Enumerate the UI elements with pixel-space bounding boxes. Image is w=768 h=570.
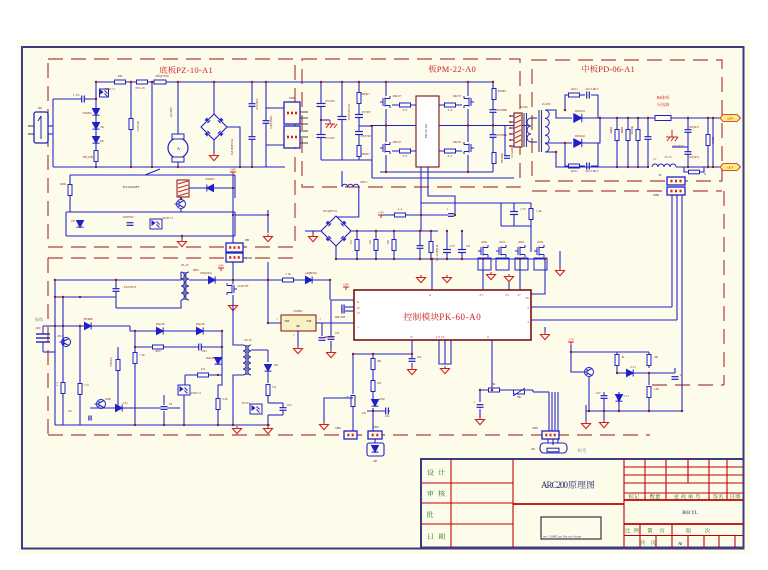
potentiometer 10K 标定 (540, 443, 567, 453)
junction dots PD (599, 117, 601, 119)
resistor 10W5K7 (492, 89, 496, 100)
snubber bottom capacitor (580, 165, 585, 167)
wire sensor c (681, 195, 683, 392)
transformer EL-25 (181, 272, 185, 300)
snubber bottom resistor 1R22 (565, 143, 568, 166)
wire PK35 bottom out a (420, 167, 422, 215)
svg-text:C0N0: C0N0 (246, 256, 253, 260)
svg-text:222/1.6KV: 222/1.6KV (585, 87, 599, 91)
svg-text:VINT: VINT (284, 320, 290, 323)
wire filter tap (359, 125, 372, 127)
resistor 10PK017 bottom (357, 146, 361, 157)
svg-text:470: 470 (201, 368, 206, 371)
svg-text:2(B)47N30: 2(B)47N30 (155, 74, 169, 78)
capacitor .09 (161, 407, 168, 410)
svg-text:540: 540 (369, 239, 372, 244)
svg-text:10W5K7: 10W5K7 (498, 89, 507, 93)
wire mid vert 222 (221, 331, 223, 375)
ground loop (320, 422, 329, 430)
wire 15V feed (381, 214, 455, 216)
resistor gate 0.8 lower (392, 150, 416, 152)
dashed box 板 PM-22-A0 (302, 59, 520, 187)
title block frame (421, 459, 744, 548)
power -28V flag (218, 268, 224, 271)
svg-text:468L/NW: 468L/NW (324, 336, 334, 339)
svg-text:ELL/90A/OFF: ELL/90A/OFF (123, 185, 140, 189)
svg-text:7.10: 7.10 (83, 384, 89, 387)
wire pin6 down (491, 340, 493, 390)
resistor gate 9.6 (439, 104, 462, 106)
resistor 2B47N30 (154, 80, 166, 84)
svg-text:222/1.6KV: 222/1.6KV (585, 169, 599, 173)
svg-text:ARC200: ARC200 (541, 480, 569, 490)
svg-text:10K: 10K (531, 448, 535, 451)
ground module top b (443, 275, 452, 283)
svg-text:IN14(B5U): IN14(B5U) (323, 209, 337, 213)
mosfet bank Q8 2Z24 (534, 245, 544, 257)
svg-text:9K: 9K (493, 383, 496, 386)
capacitor snubber (504, 126, 506, 158)
capacitor .062 led (372, 408, 374, 411)
power -15V flag (568, 342, 574, 345)
wire D2 out (581, 118, 600, 143)
capacitor .1 pin6 (479, 390, 481, 402)
diode IN4002 (189, 187, 235, 189)
resistor gate 0.8 (392, 104, 416, 106)
wire module right pin2 (531, 306, 672, 308)
svg-text:15-15: 15-15 (664, 155, 672, 159)
svg-text:9Z04: 9Z04 (481, 240, 487, 244)
optocoupler PC817-1 (100, 89, 109, 97)
resistor 100 (371, 381, 375, 392)
wire column 152 (151, 82, 153, 167)
wire aux bottom rail (55, 424, 270, 426)
svg-text:10PK017: 10PK017 (360, 93, 370, 96)
resistor 9K (489, 388, 500, 392)
svg-text:9.2K: 9.2K (222, 398, 228, 401)
module pin numbers (428, 293, 432, 297)
connector X2 current sensor (667, 177, 685, 185)
wire aux dc rail top (351, 230, 438, 232)
mosfet aux 4148 (227, 283, 237, 295)
capacitor 474-250V a (249, 104, 256, 107)
ground module left (330, 341, 332, 350)
svg-text:-28V: -28V (218, 264, 225, 268)
resistor 9.2K (216, 399, 220, 410)
wire LM7812 out (316, 322, 354, 324)
svg-text:+15V: +15V (378, 211, 385, 215)
svg-text:TVR-431: TVR-431 (136, 120, 140, 131)
capacitor filter a (446, 231, 448, 259)
ground T3 (264, 426, 273, 434)
svg-text:104: 104 (335, 332, 340, 335)
wire DC+ rail (600, 117, 725, 119)
resistor 1.0R drive (530, 203, 532, 252)
wire module top pin 23 (482, 259, 484, 290)
svg-text:2 9 16: 2 9 16 (436, 335, 445, 339)
transformer T1 output winding (545, 110, 549, 152)
svg-text:6.23: 6.23 (630, 366, 636, 369)
scale page row (626, 528, 639, 533)
diode 4148 cluster (616, 368, 618, 373)
mosfet bank Q5 9Z04 (478, 245, 488, 257)
capacitor 4.7uF drive (513, 203, 515, 226)
wire aux left vert 63 (62, 297, 64, 352)
wire con1 feed (372, 411, 374, 431)
mosfet Q2 2SK727 (464, 96, 474, 108)
varistor 2KB21 b (627, 118, 629, 167)
capacitor 0.1 (448, 214, 454, 217)
svg-text:C0N6: C0N6 (653, 193, 660, 197)
svg-text:2007: 2007 (155, 350, 161, 353)
resistor RT2 (115, 80, 126, 84)
svg-text:B016: B016 (193, 269, 199, 272)
svg-text:26: 26 (525, 296, 529, 300)
svg-text:DPG0.62: DPG0.62 (575, 134, 586, 138)
svg-text:471CBB3: 471CBB3 (497, 108, 508, 112)
svg-text:PZ-10-A1: PZ-10-A1 (176, 65, 213, 75)
resistor 2007 (153, 345, 164, 349)
dashed box 底板 PZ-10-A1 (48, 59, 295, 247)
svg-text:LM7812: LM7812 (294, 309, 304, 313)
svg-text:471/1KV: 471/1KV (325, 137, 335, 140)
junction dots mid (335, 258, 337, 260)
junction dots PM (385, 81, 387, 83)
connector CON8 lower (284, 126, 300, 148)
svg-text:103(1KV): 103(1KV) (689, 126, 700, 129)
diode IN4148 down (215, 358, 222, 365)
svg-text:EE-16: EE-16 (245, 339, 253, 342)
svg-text:100: 100 (377, 382, 382, 385)
wire B2 bottom (335, 246, 337, 259)
transistor drive (583, 368, 594, 377)
svg-text:LED1: LED1 (379, 398, 385, 401)
wire AC top rail (96, 81, 493, 83)
optocoupler PCB17-2 (178, 385, 190, 395)
wire PM bottom rail b (372, 177, 514, 179)
ground relay (181, 236, 183, 239)
resistor 79K pot (514, 390, 525, 394)
wire net 222-375 to 218 (218, 375, 222, 399)
wire 4148 row (130, 326, 222, 331)
transformer T1 pins (509, 116, 514, 146)
wire aux 24V rail (233, 279, 330, 281)
svg-text:23: 23 (479, 293, 483, 297)
svg-text:9W3.6K: 9W3.6K (631, 126, 634, 134)
wire net 185 down (183, 395, 185, 425)
wire PM filter column (358, 82, 360, 160)
wire pin6 net (480, 389, 533, 391)
wire sensor a (671, 195, 673, 307)
earth ground PM (321, 119, 330, 121)
wire inlet N (28, 133, 34, 135)
wire net right (532, 390, 534, 392)
wire pin15 down (411, 340, 413, 362)
wire reg feed down (329, 280, 331, 300)
resistor 2.2 left (62, 352, 64, 425)
transformer T1 secondary (527, 118, 531, 142)
svg-text:474/250V: 474/250V (255, 97, 259, 110)
wire drive rail 203 (421, 202, 531, 204)
svg-text:OUT-: OUT- (727, 166, 734, 170)
resistor 470 (185, 374, 222, 376)
wire net 135 down (134, 364, 136, 425)
svg-text:2KB21: 2KB21 (621, 126, 624, 134)
wire cluster top (570, 345, 572, 368)
svg-text:C0N2: C0N2 (335, 427, 341, 430)
svg-text:47UF/50V: 47UF/50V (361, 135, 372, 138)
svg-text:N4: N4 (101, 125, 105, 129)
wire cap feed (53, 98, 75, 100)
svg-text:-15V: -15V (568, 338, 575, 342)
svg-text:AD-12-IP41-B: AD-12-IP41-B (436, 244, 439, 261)
svg-text:1.4K: 1.4K (536, 210, 541, 213)
inductor N06-1 (341, 171, 343, 187)
wire inductor to bridge (336, 187, 359, 217)
dashed boundary line below PD board (532, 190, 722, 192)
transformer T1 core (524, 113, 527, 147)
wire 1.4K down (648, 398, 650, 411)
svg-text:1.05: 1.05 (73, 93, 80, 97)
transformer T3 drive (243, 345, 246, 375)
ground pin15 (411, 363, 413, 367)
ground mosfet b (559, 251, 561, 268)
varistor 2KB21 a (616, 118, 618, 167)
label 标定 (578, 448, 587, 452)
wire AC bottom rail (53, 166, 285, 168)
wire aux input a (43, 325, 55, 327)
title row labels (427, 469, 445, 475)
svg-text:4.15: 4.15 (623, 395, 629, 398)
svg-text:X2: X2 (659, 173, 663, 177)
wire module top pin 27 (519, 259, 521, 290)
svg-text:9.6: 9.6 (448, 154, 453, 158)
wire cap column 252 (251, 82, 253, 167)
zener 14V (267, 350, 269, 362)
wire PK35 to rail join (420, 215, 422, 231)
svg-text:2SK727: 2SK727 (393, 94, 402, 98)
svg-text:PTC-18: PTC-18 (136, 86, 146, 90)
svg-text:2N11: 2N11 (57, 335, 63, 338)
svg-text:PD-06-A1: PD-06-A1 (598, 64, 635, 74)
module 控制模块 PK-60-A0 (354, 290, 531, 340)
svg-text:2Z24: 2Z24 (537, 240, 543, 244)
resistor PTC-18 (137, 80, 148, 84)
svg-text:PK-60-A0: PK-60-A0 (439, 312, 481, 322)
resistor 7.10 (79, 326, 81, 425)
svg-text:1.4K: 1.4K (653, 388, 659, 391)
svg-text:PC817-1: PC817-1 (163, 216, 174, 220)
bridge rectifier B2 IN5408 (321, 216, 351, 246)
resistor 10 (351, 396, 355, 407)
resistor 10PK017 top (357, 93, 361, 104)
svg-text:435/630/W: 435/630/W (124, 286, 137, 289)
capacitor pin13 (345, 310, 354, 312)
wire PM left cap column (320, 82, 322, 160)
svg-text:PH(4004): PH(4004) (200, 272, 211, 275)
svg-text:CX(CB)/0V: CX(CB)/0V (269, 115, 273, 129)
diode HY3048 (55, 325, 130, 327)
wire relay lower loop (66, 211, 235, 213)
dashed box bottom region (47, 258, 49, 435)
capacitor 103 1KV b (685, 152, 692, 155)
wire res row (134, 331, 136, 347)
svg-text:14V: 14V (274, 364, 278, 367)
diode PH14047 (189, 279, 233, 281)
diode D1 DPG60 (574, 114, 582, 122)
chassis ground (666, 130, 678, 141)
capacitor 471 1KV a (317, 104, 326, 107)
wire relay loop (70, 174, 235, 176)
wire bridge out (227, 127, 240, 167)
diode IN4148 a (157, 328, 164, 335)
wire PM right vert (492, 82, 494, 172)
capacitor .062 (199, 344, 202, 351)
connector X01 AC inlet (34, 112, 48, 143)
wire DC- rail (545, 152, 648, 167)
svg-text:EI34b: EI34b (520, 105, 528, 109)
wire output right vert (712, 118, 714, 167)
svg-text:JL: JL (704, 173, 707, 176)
resistor bleeder (707, 118, 709, 167)
transistor Q relay (175, 200, 186, 209)
ground cluster b (585, 411, 587, 421)
capacitor 47UF50V (355, 132, 363, 135)
ground cluster a (603, 411, 605, 420)
wire pins 2 9 16 (439, 340, 451, 364)
wire xfmr top feed (177, 272, 181, 280)
ground B2 (312, 231, 314, 234)
inductor L7 (652, 164, 676, 167)
junction dots box1 (95, 81, 97, 83)
wire aux rail 280 (55, 279, 177, 281)
wire k row (90, 407, 180, 409)
capacitor 104 (409, 359, 416, 362)
svg-text:RT2: RT2 (118, 74, 123, 78)
svg-text:C0N3: C0N3 (532, 427, 538, 430)
svg-text:9Z04: 9Z04 (518, 240, 524, 244)
svg-text:2SK727: 2SK727 (453, 94, 462, 98)
svg-text:1.0UF50V: 1.0UF50V (122, 215, 135, 219)
wire aux left rail 297 (55, 296, 116, 298)
wire cluster bottom (588, 392, 590, 411)
mosfet Q4 2SK727 (464, 142, 474, 154)
wire earth tie (672, 146, 688, 148)
diode IN4148 b (197, 328, 204, 335)
wire pot feed (352, 407, 354, 431)
resistor FR108 (94, 151, 98, 162)
svg-text:1R/22: 1R/22 (570, 169, 578, 173)
wire PK35 bottom out b (428, 167, 455, 215)
connector pot CON3 (542, 431, 559, 439)
svg-text:13: 13 (356, 311, 360, 315)
svg-text:47V/50V: 47V/50V (361, 111, 370, 114)
connector aux input (36, 334, 50, 342)
resistor 471CBB lower (492, 153, 496, 164)
capacitor 103 1KV (687, 118, 689, 167)
svg-text:0.8: 0.8 (403, 108, 408, 112)
svg-text:10PK017: 10PK017 (360, 153, 370, 156)
svg-text:IN4148: IN4148 (206, 357, 215, 360)
resistor 501 (430, 231, 432, 259)
wire to aux right (235, 214, 268, 216)
svg-text:L7: L7 (654, 157, 658, 161)
resistor 79K (372, 354, 374, 399)
capacitor aux (419, 231, 421, 259)
svg-text:2.2: 2.2 (56, 381, 59, 386)
wire module top pin 25 (508, 281, 510, 290)
svg-text:IN4148: IN4148 (156, 322, 165, 326)
torch connector (374, 439, 376, 443)
diode N4 (93, 123, 100, 130)
svg-text:hw: 518B7.pp file not found: hw: 518B7.pp file not found (543, 535, 582, 539)
capacitor 468L NW (321, 323, 323, 336)
svg-text:4.25: 4.25 (122, 402, 128, 405)
svg-text:+24V: +24V (230, 168, 237, 172)
resistor 27KX2 (117, 347, 119, 408)
ground pin6 (479, 409, 481, 417)
zener 15V (77, 221, 84, 228)
regulator LM7812 (281, 315, 316, 331)
svg-text:7.1K: 7.1K (139, 354, 145, 357)
svg-text:EL-25: EL-25 (181, 263, 189, 267)
module PK-35-A0 (416, 96, 439, 167)
mosfet Q1 2SK727 (380, 96, 390, 108)
dashed right margin boundary (723, 191, 725, 385)
capacitor 474-250V b (249, 137, 256, 140)
wire opto feed (184, 375, 186, 385)
svg-text:110V: 110V (35, 327, 41, 330)
ground LM7812 (297, 331, 299, 346)
svg-text:VOUT: VOUT (306, 320, 312, 323)
svg-text:C0N1: C0N1 (373, 426, 379, 429)
capacitor 1.05 (75, 98, 96, 100)
resistor 9W36 (637, 118, 639, 167)
ground aux bottom (233, 426, 242, 434)
wire cap column 266 (265, 82, 267, 167)
svg-text:79K: 79K (517, 396, 521, 399)
resistor 1K (616, 352, 618, 368)
dashed box 中板 PD-06-A1 (532, 60, 722, 181)
capacitor 47V50KV (355, 115, 363, 118)
svg-text:4.7F: 4.7F (449, 245, 455, 248)
resistor 180 (393, 231, 395, 259)
svg-text:7.1K: 7.1K (285, 272, 292, 276)
bridge rectifier B1 (213, 82, 215, 114)
resistor 2.2 (395, 213, 406, 217)
svg-text:PK.35.A0: PK.35.A0 (424, 124, 428, 138)
mosfet bank Q7 9Z04 (515, 245, 525, 257)
svg-text:2SK727: 2SK727 (393, 140, 402, 144)
wire EMI column (130, 82, 132, 167)
wire T3 left (233, 303, 243, 345)
svg-text:OUT+: OUT+ (727, 117, 734, 121)
wire secondary top tap (545, 110, 572, 118)
svg-text:IN4002: IN4002 (206, 177, 216, 181)
wire LM7812 in (268, 280, 281, 323)
capacitor output a (647, 118, 649, 167)
svg-text:A0: A0 (678, 541, 683, 546)
svg-text:180: 180 (387, 239, 390, 244)
capacitor 471CBB3 (490, 110, 497, 113)
ground bridge (213, 140, 215, 153)
svg-text:18-480: 18-480 (542, 102, 551, 106)
wire PM bottom rail a (380, 171, 493, 173)
svg-text:510: 510 (350, 239, 353, 244)
capacitor .062 b (282, 403, 284, 415)
svg-text:471/1KV: 471/1KV (325, 100, 335, 103)
svg-text:X01: X01 (38, 106, 43, 110)
